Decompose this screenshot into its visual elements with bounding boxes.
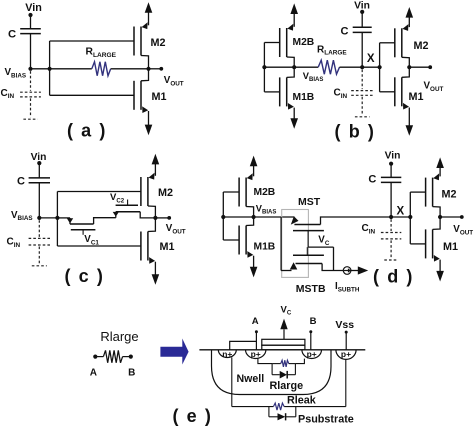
node (b) bbox=[378, 65, 382, 69]
wire bbox=[149, 68, 162, 70]
wire bbox=[231, 357, 233, 406]
wire bbox=[362, 66, 379, 68]
wire bbox=[306, 247, 308, 255]
svg-text:VOUT: VOUT bbox=[166, 223, 186, 235]
svg-text:VBIAS: VBIAS bbox=[303, 71, 324, 83]
transistor VC2 channel (c) bbox=[116, 211, 140, 213]
svg-text:( e ): ( e ) bbox=[172, 406, 212, 426]
wire gate-loop top (b) bbox=[380, 42, 395, 44]
transistor M2 (b) bbox=[394, 28, 396, 57]
capacitor CIN parasitic (a) bbox=[30, 71, 32, 91]
svg-text:Rleak: Rleak bbox=[287, 395, 317, 407]
diode p+ Nwell (e) bbox=[272, 374, 280, 376]
node output (c) bbox=[153, 216, 157, 220]
node output (b) bbox=[407, 65, 411, 69]
svg-text:CIN: CIN bbox=[1, 88, 15, 100]
wire bbox=[38, 183, 40, 218]
svg-text:M2: M2 bbox=[158, 187, 173, 199]
blue arrow (e) bbox=[160, 339, 188, 365]
capacitor CIN parasitic (b) bbox=[361, 70, 363, 90]
svg-text:M2: M2 bbox=[414, 40, 429, 52]
node VBIAS (c) bbox=[37, 216, 41, 220]
svg-text:( b ): ( b ) bbox=[335, 122, 376, 142]
svg-text:( c ): ( c ) bbox=[64, 266, 104, 286]
transistor MSTB channel (d) bbox=[296, 263, 323, 265]
transistor M1 (b) bbox=[394, 77, 396, 106]
resistor RLARGE (b) bbox=[318, 60, 339, 74]
node (d) bbox=[221, 215, 225, 219]
svg-text:VBIAS: VBIAS bbox=[256, 203, 277, 215]
transistor M1 (c) bbox=[140, 232, 142, 261]
Nwell boundary (e) bbox=[212, 350, 332, 395]
svg-text:M1: M1 bbox=[160, 241, 175, 253]
node output (a) bbox=[146, 67, 150, 71]
svg-text:M1: M1 bbox=[443, 241, 458, 253]
wire bbox=[223, 216, 294, 218]
gate poly (e) bbox=[262, 339, 305, 345]
wire bbox=[38, 163, 40, 178]
node VBIAS (d) bbox=[252, 215, 256, 219]
transistor MST channel (d) bbox=[294, 224, 320, 226]
wire diode-pair gates (b) bbox=[263, 43, 265, 92]
svg-text:B: B bbox=[128, 368, 135, 379]
resistor Rleak (e) bbox=[232, 406, 274, 408]
transistor MST source arrow (d) bbox=[291, 216, 299, 224]
transistor MSTB gate (d) bbox=[293, 254, 324, 256]
wire bbox=[391, 216, 410, 218]
node VBIAS (b) bbox=[292, 65, 296, 69]
transistor M2B (d) bbox=[238, 178, 240, 207]
wire bbox=[322, 264, 343, 271]
svg-text:Vss: Vss bbox=[335, 319, 354, 331]
gate oxide (e) bbox=[262, 345, 305, 350]
svg-text:C: C bbox=[8, 28, 16, 40]
capacitor CIN parasitic (c) bbox=[38, 220, 40, 237]
svg-text:C: C bbox=[17, 176, 25, 188]
wire gate-loop left (b) bbox=[379, 43, 381, 92]
svg-text:p+: p+ bbox=[341, 349, 351, 359]
transistor M2 (c) bbox=[140, 177, 142, 206]
capacitor C (c) bbox=[29, 177, 50, 179]
wire bbox=[271, 364, 273, 375]
wire bbox=[30, 34, 32, 69]
wire bbox=[281, 270, 291, 272]
svg-text:A: A bbox=[252, 316, 259, 327]
wire bbox=[94, 218, 116, 224]
svg-text:n+: n+ bbox=[222, 349, 232, 359]
wire gate-loop top (c) bbox=[57, 191, 140, 193]
svg-text:MSTB: MSTB bbox=[296, 283, 326, 295]
contact A (e) bbox=[255, 330, 258, 333]
wire gate-loop top (a) bbox=[50, 40, 134, 42]
wire bbox=[440, 216, 462, 218]
wire bbox=[264, 91, 279, 93]
svg-text:VC2: VC2 bbox=[110, 192, 125, 204]
svg-text:Rlarge: Rlarge bbox=[270, 380, 304, 392]
wire bbox=[111, 68, 149, 70]
wire gate-loop bottom (b) bbox=[380, 91, 395, 93]
node junction (a) bbox=[48, 67, 52, 71]
svg-text:ISUBTH: ISUBTH bbox=[335, 281, 360, 293]
svg-text:p+: p+ bbox=[307, 349, 317, 359]
transistor VC1 source arrow (c) bbox=[69, 218, 71, 224]
transistor M2B (b) bbox=[279, 28, 281, 57]
diffusion p+ Vss (e) bbox=[336, 350, 356, 360]
svg-text:VOUT: VOUT bbox=[424, 81, 444, 93]
transistor M1B (b) bbox=[279, 77, 281, 106]
transistor M2 (d) bbox=[425, 178, 427, 207]
node VOUT terminal (d) bbox=[460, 215, 464, 219]
wire bbox=[223, 239, 239, 241]
capacitor C (b) bbox=[353, 26, 372, 28]
diffusion p+ B (e) bbox=[302, 350, 322, 359]
node X (d) bbox=[389, 215, 393, 219]
svg-text:X: X bbox=[367, 53, 375, 65]
diode Psubstrate (e) bbox=[268, 407, 270, 417]
wire bbox=[345, 359, 347, 406]
wire bbox=[409, 66, 430, 68]
wire gate-loop bottom (c) bbox=[57, 245, 140, 247]
wire gate-loop left (a) bbox=[49, 41, 51, 95]
svg-text:p+: p+ bbox=[251, 349, 261, 359]
svg-text:A: A bbox=[90, 368, 97, 379]
wire bbox=[140, 212, 155, 218]
svg-text:Vin: Vin bbox=[25, 2, 42, 14]
svg-text:M1: M1 bbox=[409, 91, 424, 103]
transistor M1 (d) bbox=[425, 229, 427, 258]
substrate surface line (e) bbox=[199, 349, 365, 351]
transistor VC1 gate (c) bbox=[71, 229, 96, 231]
wire gate-loop top (d) bbox=[410, 191, 425, 193]
wire bbox=[264, 66, 318, 68]
wire diode-pair gates (d) bbox=[222, 192, 224, 240]
wire bbox=[57, 217, 70, 219]
svg-text:M1B: M1B bbox=[254, 242, 276, 253]
transistor VC1 channel (c) bbox=[70, 223, 94, 225]
svg-text:Vin: Vin bbox=[385, 151, 401, 162]
svg-text:M2B: M2B bbox=[254, 187, 276, 198]
wire bbox=[30, 15, 32, 29]
wire bbox=[258, 358, 272, 363]
transistor VC2 source arrow (c) bbox=[115, 212, 117, 218]
svg-text:M2: M2 bbox=[151, 37, 166, 49]
svg-text:VC: VC bbox=[318, 235, 330, 247]
svg-text:VOUT: VOUT bbox=[453, 224, 473, 236]
resistor RLARGE (a) bbox=[92, 62, 111, 76]
svg-text:Rlarge: Rlarge bbox=[100, 329, 138, 344]
wire bbox=[295, 359, 304, 364]
wire bbox=[223, 191, 239, 193]
capacitor C (d) bbox=[381, 176, 401, 178]
svg-text:( a ): ( a ) bbox=[67, 121, 107, 141]
wire bbox=[284, 406, 346, 408]
wire gate-loop left (d) bbox=[409, 192, 411, 244]
wire bbox=[361, 12, 363, 27]
svg-text:C: C bbox=[368, 174, 376, 186]
svg-text:Psubstrate: Psubstrate bbox=[298, 413, 354, 425]
wire bbox=[264, 42, 279, 44]
svg-text:VBIAS: VBIAS bbox=[5, 67, 27, 79]
wire bbox=[333, 247, 335, 270]
svg-text:VOUT: VOUT bbox=[164, 75, 184, 87]
node (b) bbox=[262, 65, 266, 69]
contact B (e) bbox=[309, 330, 312, 333]
current source ISUBTH (d) bbox=[343, 267, 351, 275]
transistor M2 (a) bbox=[133, 27, 135, 56]
wire bbox=[321, 217, 392, 225]
wire gate-loop bottom (a) bbox=[50, 94, 134, 96]
svg-text:CIN: CIN bbox=[362, 223, 376, 235]
wire bbox=[31, 68, 50, 70]
svg-text:X: X bbox=[397, 206, 405, 218]
wire bbox=[390, 182, 392, 217]
svg-text:CIN: CIN bbox=[334, 88, 348, 100]
transistor M1B (d) bbox=[238, 226, 240, 255]
wire bbox=[294, 364, 296, 375]
svg-text:VBIAS: VBIAS bbox=[11, 210, 33, 222]
svg-text:VC: VC bbox=[281, 305, 292, 317]
svg-text:M1: M1 bbox=[152, 91, 167, 103]
transistor MST gate (d) bbox=[293, 230, 324, 232]
wire bbox=[50, 68, 92, 70]
wire bbox=[39, 217, 57, 219]
resistor Rlarge well (e) bbox=[272, 363, 281, 365]
svg-text:M2: M2 bbox=[442, 188, 457, 200]
svg-text:VC1: VC1 bbox=[84, 234, 99, 246]
svg-text:Nwell: Nwell bbox=[237, 373, 265, 385]
svg-text:CIN: CIN bbox=[7, 237, 21, 249]
svg-text:MST: MST bbox=[298, 196, 321, 208]
node (d) bbox=[408, 215, 412, 219]
transistor M1 (a) bbox=[133, 81, 135, 110]
node VOUT terminal (c) bbox=[167, 216, 171, 220]
transistor MSTB source arrow (d) bbox=[290, 262, 298, 269]
wire bbox=[155, 217, 169, 219]
svg-text:M1B: M1B bbox=[293, 92, 315, 103]
node VOUT terminal (a) bbox=[159, 67, 163, 71]
svg-text:M2B: M2B bbox=[293, 37, 315, 48]
capacitor C (a) bbox=[20, 28, 41, 30]
wire gate-loop left (c) bbox=[56, 192, 58, 247]
node junction (c) bbox=[55, 216, 59, 220]
svg-text:RLARGE: RLARGE bbox=[317, 44, 347, 56]
wire bbox=[280, 217, 282, 271]
svg-text:RLARGE: RLARGE bbox=[86, 47, 117, 59]
node output (d) bbox=[438, 215, 442, 219]
wire gate-loop bottom (d) bbox=[410, 243, 425, 245]
svg-text:C: C bbox=[341, 25, 349, 37]
wire VC node (d) bbox=[308, 246, 333, 248]
svg-text:( d ): ( d ) bbox=[373, 267, 414, 287]
diffusion p+ A (e) bbox=[246, 350, 266, 359]
transistor VC2 gate (c) bbox=[116, 204, 138, 206]
wire bbox=[340, 66, 363, 68]
capacitor CIN parasitic (d) bbox=[390, 219, 392, 231]
wire bbox=[361, 32, 363, 67]
svg-text:B: B bbox=[310, 316, 317, 327]
node VOUT terminal (b) bbox=[428, 65, 432, 69]
node X (b) bbox=[360, 65, 364, 69]
node VBIAS (a) bbox=[28, 67, 32, 71]
wire bbox=[390, 164, 392, 178]
MST MSTB enclosure box bbox=[282, 210, 309, 278]
diffusion n+ (e) bbox=[218, 350, 236, 358]
